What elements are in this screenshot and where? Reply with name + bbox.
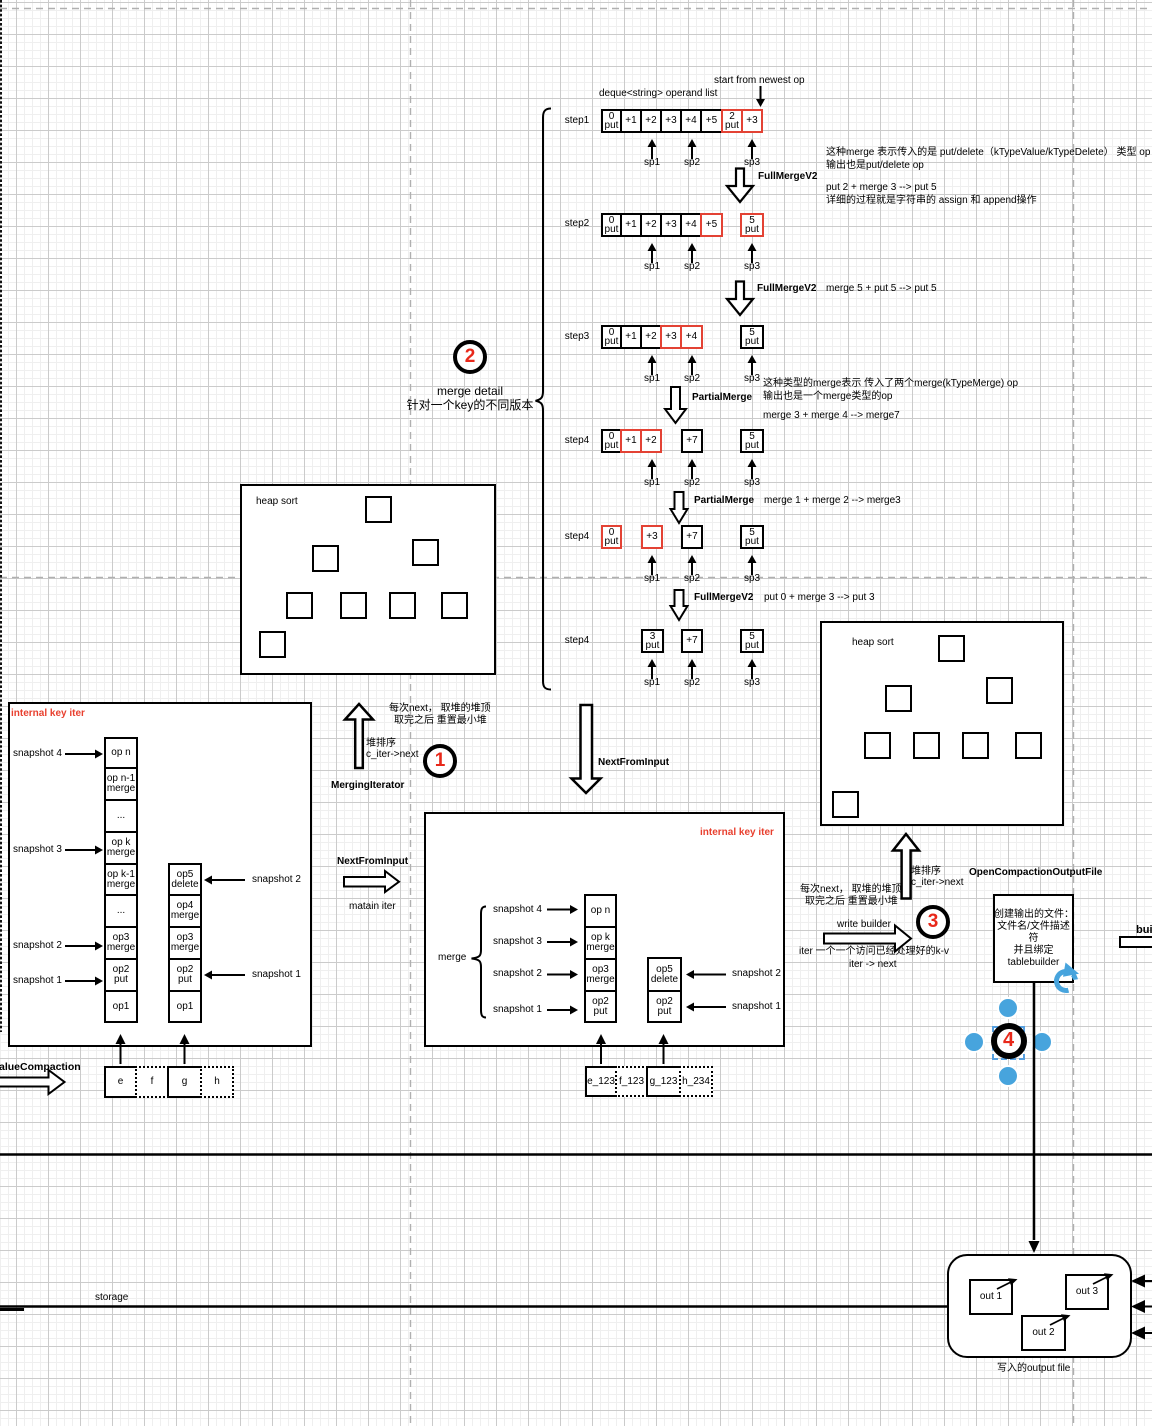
label snapshot 4 center	[493, 904, 542, 916]
refresh icon blue	[1054, 963, 1079, 993]
step3 box 5 put	[740, 325, 764, 349]
step3 cell 0 put	[601, 325, 622, 349]
label snapshot 1 center right	[732, 1001, 781, 1013]
heap node square r	[832, 791, 859, 818]
label FullMergeV2 a2	[757, 283, 816, 295]
block arrow MergingIterator up	[345, 704, 373, 768]
label sp2 r4	[681, 477, 703, 489]
text annotation merge put/delete	[826, 146, 1150, 172]
merge brace center box	[472, 907, 487, 1018]
box OpenCompactionOutputFile	[993, 894, 1074, 983]
label FullMergeV2 a1	[758, 171, 817, 183]
step2 cell +4	[680, 213, 702, 237]
op cell center op3 merge	[584, 958, 617, 992]
label sp3 r3	[741, 373, 763, 385]
step4a cell +1 red	[620, 429, 642, 453]
input box e	[104, 1066, 137, 1098]
step4b box 5 put	[740, 525, 764, 549]
sp arrow r6c3	[748, 659, 757, 679]
label sp2 r2	[681, 261, 703, 273]
block arrow ValueCompaction left edge	[0, 1070, 65, 1094]
circled number 2	[453, 340, 487, 374]
op cell op4 merge	[168, 894, 202, 928]
step4a cell +2 red	[640, 429, 662, 453]
text create output file	[994, 909, 1073, 969]
arrow out right 3	[1131, 1327, 1152, 1340]
arrow snapshot2 right side	[204, 876, 245, 885]
label iter kv	[799, 946, 949, 958]
heap node square	[365, 496, 392, 523]
step2 cell +1	[620, 213, 642, 237]
arrow snapshot2 left	[65, 942, 103, 951]
block arrow FullMergeV2 a5	[671, 590, 688, 620]
heap node square r	[885, 685, 912, 712]
label PartialMerge a4	[694, 495, 754, 507]
arrow snapshot1 left	[65, 977, 103, 986]
label internal key iter left	[11, 708, 85, 720]
page separator dashed vertical left-center	[410, 0, 412, 1426]
heap node square	[259, 631, 286, 658]
arrow snapshot3 left	[65, 846, 103, 855]
circled number 1	[423, 744, 457, 778]
label snapshot 4 left	[13, 748, 62, 760]
label sp3 r5	[741, 573, 763, 585]
label heap sort right	[852, 637, 894, 649]
block arrow NextFromInput right	[344, 871, 399, 892]
rounded output file box	[947, 1254, 1132, 1358]
text annotation merge1+merge2	[764, 495, 901, 507]
block arrow write builder right	[824, 926, 911, 952]
label storage	[95, 1292, 128, 1304]
label step4 a	[560, 435, 594, 447]
input box f_123 dotted	[615, 1066, 648, 1097]
label deque operand list	[599, 88, 717, 100]
sp arrow r1c2	[688, 139, 697, 159]
out 3 box	[1065, 1274, 1109, 1310]
block arrow PartialMerge a3	[665, 387, 686, 423]
label 堆排序 c_iter->next right	[911, 866, 964, 888]
heap node square	[286, 592, 313, 619]
label 每次next right	[800, 884, 902, 907]
text annotation put2+merge3	[826, 181, 1037, 207]
bar builder arrow tail right edge	[1119, 936, 1152, 948]
storage line 2	[0, 1305, 947, 1308]
sp arrow r4c1	[648, 459, 657, 479]
arrow out right 2	[1131, 1300, 1152, 1313]
arrow snapshot1 right side	[204, 971, 245, 980]
out 1 box	[969, 1279, 1013, 1315]
label alueCompaction	[0, 1061, 81, 1073]
label sp1 r1	[641, 157, 663, 169]
blue dot top	[997, 997, 1019, 1019]
op cell center op2 put	[584, 990, 617, 1023]
op cell op3 merge	[104, 926, 138, 960]
arrow g up left	[180, 1034, 190, 1064]
label snapshot 3 center	[493, 936, 542, 948]
label matain iter	[349, 901, 396, 913]
block arrow FullMergeV2 a1	[727, 169, 753, 203]
op cell dots 2	[104, 894, 138, 928]
label sp2 r6	[681, 677, 703, 689]
step3 cell +1	[620, 325, 642, 349]
corner arrow out2	[1050, 1314, 1071, 1325]
step1 cell +4	[680, 109, 702, 133]
op cell op2 put c2	[168, 958, 202, 992]
label snapshot 1 left	[13, 975, 62, 987]
snapshot arrows center box	[547, 905, 726, 1064]
op cell dots	[104, 799, 138, 833]
heap node square r	[962, 732, 989, 759]
step2 cell 0 put	[601, 213, 622, 237]
sp arrow r2c3	[748, 243, 757, 263]
page separator dashed horizontal top	[0, 8, 1152, 10]
block arrow PartialMerge a4	[671, 492, 688, 523]
corner arrow out3	[1093, 1273, 1114, 1284]
sp arrow r3c1	[648, 355, 657, 375]
arrow snapshot4 center	[547, 905, 578, 914]
heap node square	[412, 539, 439, 566]
arrow OpenCompactionOutputFile down to output	[1029, 983, 1040, 1253]
label mergingiterator texts	[389, 703, 491, 726]
label sp1 r4	[641, 477, 663, 489]
step4a cell 0 put	[601, 429, 622, 453]
sp arrow r4c3	[748, 459, 757, 479]
internal key iter box center	[424, 812, 785, 1047]
op cell op2 put	[104, 958, 138, 992]
sp arrow r4c2	[688, 459, 697, 479]
sp arrow r3c2	[688, 355, 697, 375]
corner arrow out1	[997, 1278, 1018, 1289]
text annotation merge3+merge4	[763, 410, 900, 422]
label write builder	[837, 919, 891, 931]
step2 cell +5 red	[700, 213, 723, 237]
label sp1 r3	[641, 373, 663, 385]
heap node square r	[938, 635, 965, 662]
sp arrow r2c1	[648, 243, 657, 263]
page separator dashed vertical right	[1073, 0, 1075, 1426]
block arrow FullMergeV2 a2	[727, 282, 753, 316]
step4a box +7	[681, 429, 703, 453]
step4b box +7	[681, 525, 703, 549]
op cell center col2 op2 put	[647, 990, 682, 1023]
step4a box 5 put	[740, 429, 764, 453]
label output file	[997, 1363, 1070, 1375]
label sp2 r1	[681, 157, 703, 169]
sp arrow r5c2	[688, 555, 697, 575]
black dashed edge line left	[0, 0, 2, 1032]
step1 cell +5	[700, 109, 723, 133]
op cell op n-1 merge	[104, 767, 138, 801]
text annotation kTypeMerge	[763, 377, 1018, 403]
circled number 3	[916, 905, 950, 939]
input box f dotted	[135, 1066, 169, 1098]
heap sort box left	[240, 484, 496, 675]
circled number 4	[991, 1023, 1027, 1059]
input box g_123	[646, 1066, 681, 1097]
step2 cell +3	[660, 213, 682, 237]
step3 cell +2	[640, 325, 662, 349]
arrow snapshot2 center right	[686, 970, 726, 979]
input box h_234 dotted	[679, 1066, 713, 1097]
label builder right edge	[1136, 924, 1152, 936]
label step4 c	[560, 635, 594, 647]
heap sort box right	[820, 621, 1064, 826]
label sp3 r6	[741, 677, 763, 689]
sp arrows rows	[648, 139, 757, 679]
label sp3 r2	[741, 261, 763, 273]
label snapshot 2 center	[493, 968, 542, 980]
label snapshot 2 center right	[732, 968, 781, 980]
brace steps section	[536, 109, 552, 690]
op cell op k merge	[104, 831, 138, 865]
arrow e_123 up	[596, 1034, 606, 1064]
sp arrow r5c3	[748, 555, 757, 575]
label snapshot 2 right side	[252, 874, 301, 886]
op cell op3 merge c2	[168, 926, 202, 960]
storage line full	[0, 1153, 1152, 1156]
label step4 b	[560, 531, 594, 543]
label iter next	[849, 959, 897, 971]
label merge detail	[380, 384, 560, 412]
label snapshot 1 center	[493, 1004, 542, 1016]
sp arrow r1c1	[648, 139, 657, 159]
label heap sort left	[256, 496, 298, 508]
arrow out right 1	[1131, 1275, 1152, 1288]
label snapshot 3 left	[13, 844, 62, 856]
arrow e up left	[116, 1034, 126, 1064]
label PartialMerge a3	[692, 392, 752, 404]
heap node square	[441, 592, 468, 619]
sp arrow r5c1	[648, 555, 657, 575]
block arrow heap right up	[893, 834, 919, 899]
selection dashed rect around 4	[992, 1026, 1025, 1060]
arrow snapshot4 left	[65, 750, 103, 759]
arrow start from newest op	[756, 86, 765, 107]
label sp2 r3	[681, 373, 703, 385]
op cell op k-1 merge	[104, 863, 138, 896]
label merge brace	[438, 952, 466, 964]
step2 cell +2	[640, 213, 662, 237]
arrow snapshot3 center	[547, 938, 578, 947]
step4b box 0 put red	[601, 525, 622, 549]
sp arrow r6c2	[688, 659, 697, 679]
heap node square r	[986, 677, 1013, 704]
snapshot arrows left box	[65, 750, 245, 1065]
blue dot left	[963, 1031, 985, 1053]
label sp2 r5	[681, 573, 703, 585]
heap node square r	[864, 732, 891, 759]
op stack center col1 op n	[584, 894, 617, 928]
heap node square	[312, 545, 339, 572]
out 2 box	[1021, 1315, 1066, 1351]
step1 cell +3	[660, 109, 682, 133]
sp arrow r1c3	[748, 139, 757, 159]
sp arrow r2c2	[688, 243, 697, 263]
step1 cell 0 put	[601, 109, 622, 133]
label 堆排序 c_iter->next left	[366, 738, 419, 760]
step4c box +7	[681, 629, 703, 653]
heap node square	[389, 592, 416, 619]
step4c box 5 put	[740, 629, 764, 653]
step3 cell +3 red	[660, 325, 682, 349]
op stack left col2 cell op5 delete	[168, 863, 202, 896]
label FullMergeV2 a5	[694, 592, 753, 604]
label step1	[560, 115, 594, 127]
blue dot bottom	[997, 1065, 1019, 1087]
op cell op1 c2	[168, 990, 202, 1023]
heap node square r	[913, 732, 940, 759]
label sp1 r5	[641, 573, 663, 585]
arrows into output box right edge	[1131, 1275, 1152, 1340]
sp arrow r6c1	[648, 659, 657, 679]
input box e_123	[585, 1066, 617, 1097]
label sp3 r4	[741, 477, 763, 489]
arrow snapshot1 center right	[686, 1003, 726, 1012]
sp arrow r3c3	[748, 355, 757, 375]
arrow snapshot1 center	[547, 1006, 578, 1015]
arrow g_123 up	[659, 1034, 669, 1064]
label sp3 r1	[741, 157, 763, 169]
blue dot right	[1031, 1031, 1053, 1053]
stub line bottom left	[0, 1308, 24, 1311]
input box g	[167, 1066, 202, 1098]
op stack center col2 op5 delete	[647, 957, 682, 992]
block arrow NextFromInput down center	[572, 705, 601, 793]
page separator dashed horizontal middle	[0, 577, 1152, 579]
label NextFromInput center	[598, 757, 669, 769]
heap node square	[340, 592, 367, 619]
op cell op1	[104, 990, 138, 1023]
label MergingIterator	[331, 780, 404, 792]
step1 cell +1	[620, 109, 642, 133]
label snapshot 2 left	[13, 940, 62, 952]
text annotation merge5+put5	[826, 283, 937, 295]
label NextFromInput left	[337, 856, 408, 868]
step2 box 5 put red	[740, 213, 764, 237]
step4b box +3 red	[641, 525, 663, 549]
label snapshot 1 right side	[252, 969, 301, 981]
step4c box 3 put	[641, 629, 664, 653]
op stack left col1 cell op n	[104, 737, 138, 769]
label sp1 r2	[641, 261, 663, 273]
internal key iter box left	[8, 702, 312, 1047]
label sp1 r6	[641, 677, 663, 689]
label OpenCompactionOutputFile	[969, 867, 1102, 879]
step1 cell 2 put red	[721, 109, 743, 133]
step1 cell +3 red	[741, 109, 763, 133]
op cell center op k merge	[584, 926, 617, 960]
heap node square r	[1015, 732, 1042, 759]
arrow snapshot2 center	[547, 970, 578, 979]
step1 cell +2	[640, 109, 662, 133]
label internal key iter center	[700, 827, 774, 839]
label step2	[560, 218, 594, 230]
label step3	[560, 331, 594, 343]
label start from newest op	[714, 75, 805, 87]
input box h dotted	[200, 1066, 234, 1098]
step3 cell +4 red	[680, 325, 703, 349]
text annotation put0+merge3	[764, 592, 875, 604]
